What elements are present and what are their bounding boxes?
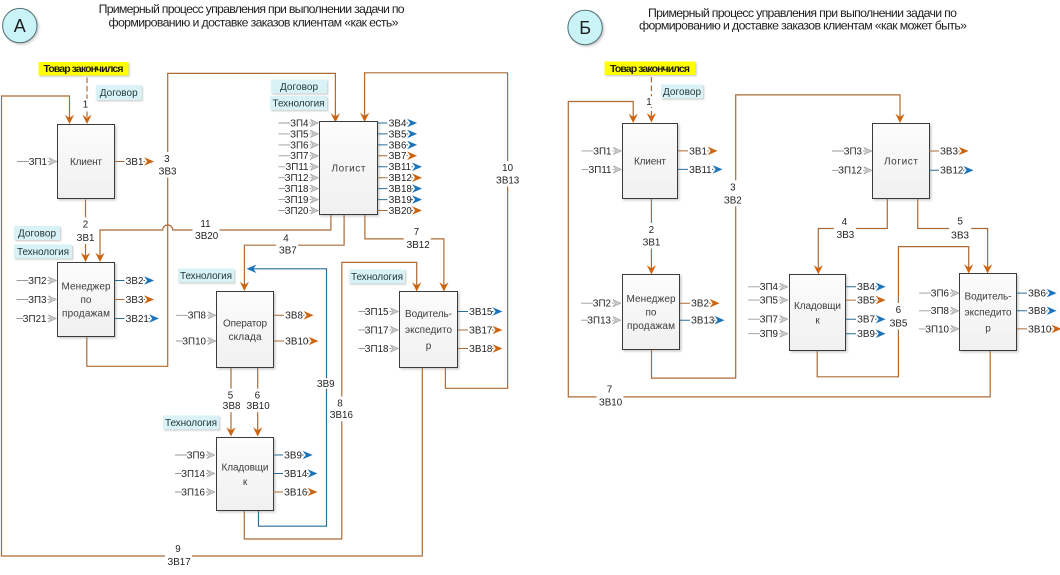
svg-text:ЗВ10: ЗВ10 bbox=[599, 398, 623, 409]
svg-text:р: р bbox=[426, 341, 432, 352]
svg-text:ЗВ18: ЗВ18 bbox=[469, 344, 493, 355]
svg-text:ЗВ2: ЗВ2 bbox=[126, 276, 144, 287]
svg-text:Примерный процесс управления п: Примерный процесс управления при выполне… bbox=[99, 2, 405, 16]
svg-text:ЗВ6: ЗВ6 bbox=[1028, 289, 1046, 300]
svg-text:ЗП1: ЗП1 bbox=[29, 157, 47, 168]
svg-text:ЗП4: ЗП4 bbox=[290, 118, 309, 129]
svg-text:ЗВ10: ЗВ10 bbox=[1028, 324, 1052, 335]
svg-text:ЗВ19: ЗВ19 bbox=[389, 195, 412, 206]
svg-text:ЗВ10: ЗВ10 bbox=[246, 401, 270, 412]
svg-text:ЗП15: ЗП15 bbox=[365, 307, 389, 318]
svg-text:ЗП10: ЗП10 bbox=[925, 324, 949, 335]
svg-text:6: 6 bbox=[896, 305, 902, 316]
svg-text:ЗП10: ЗП10 bbox=[182, 336, 206, 347]
svg-text:5: 5 bbox=[228, 390, 234, 401]
svg-text:ЗВ16: ЗВ16 bbox=[330, 410, 354, 421]
svg-text:ЗВ9: ЗВ9 bbox=[317, 379, 335, 390]
svg-text:Б: Б bbox=[579, 18, 591, 38]
svg-text:Кладовщи: Кладовщи bbox=[794, 301, 841, 312]
svg-text:8: 8 bbox=[337, 398, 343, 409]
svg-text:Логист: Логист bbox=[884, 157, 918, 168]
svg-text:ЗП8: ЗП8 bbox=[931, 306, 950, 317]
svg-text:ЗП5: ЗП5 bbox=[760, 296, 779, 307]
svg-text:Оператор: Оператор bbox=[223, 318, 267, 329]
svg-text:ЗП2: ЗП2 bbox=[593, 299, 611, 310]
svg-text:Технология: Технология bbox=[351, 272, 403, 283]
svg-text:продажам: продажам bbox=[627, 321, 675, 332]
svg-text:Клиент: Клиент bbox=[634, 157, 666, 168]
svg-text:Менеджер: Менеджер bbox=[62, 282, 111, 293]
svg-text:склада: склада bbox=[229, 332, 262, 343]
svg-text:ЗВ4: ЗВ4 bbox=[389, 118, 407, 129]
svg-text:ЗВ7: ЗВ7 bbox=[389, 151, 407, 162]
svg-text:ЗВ4: ЗВ4 bbox=[857, 282, 875, 293]
svg-text:к: к bbox=[243, 477, 248, 488]
svg-text:Товар закончился: Товар закончился bbox=[610, 63, 690, 75]
svg-text:экспедито: экспедито bbox=[965, 308, 1012, 319]
svg-text:Товар закончился: Товар закончился bbox=[44, 63, 124, 75]
svg-text:ЗВ15: ЗВ15 bbox=[469, 307, 493, 318]
svg-text:ЗП13: ЗП13 bbox=[587, 316, 611, 327]
svg-text:Технология: Технология bbox=[273, 99, 325, 110]
svg-text:ЗП11: ЗП11 bbox=[588, 165, 611, 176]
svg-text:по: по bbox=[646, 308, 657, 319]
svg-text:1: 1 bbox=[83, 99, 88, 110]
svg-text:ЗВ3: ЗВ3 bbox=[951, 230, 969, 241]
svg-text:ЗП21: ЗП21 bbox=[23, 314, 47, 325]
svg-text:ЗВ8: ЗВ8 bbox=[223, 401, 241, 412]
svg-text:продажам: продажам bbox=[62, 309, 110, 320]
svg-text:ЗВ16: ЗВ16 bbox=[284, 487, 308, 498]
svg-text:ЗВ17: ЗВ17 bbox=[167, 557, 190, 568]
svg-text:ЗП7: ЗП7 bbox=[290, 151, 308, 162]
svg-text:ЗВ10: ЗВ10 bbox=[285, 336, 309, 347]
svg-text:ЗВ2: ЗВ2 bbox=[691, 299, 709, 310]
svg-text:ЗП7: ЗП7 bbox=[760, 315, 778, 326]
svg-text:ЗВ12: ЗВ12 bbox=[940, 166, 963, 177]
svg-text:Технология: Технология bbox=[165, 418, 217, 429]
svg-text:ЗП2: ЗП2 bbox=[28, 276, 46, 287]
svg-text:2: 2 bbox=[649, 225, 654, 236]
svg-text:ЗВ1: ЗВ1 bbox=[126, 157, 144, 168]
svg-text:ЗП11: ЗП11 bbox=[285, 162, 308, 173]
svg-text:ЗВ21: ЗВ21 bbox=[126, 314, 149, 325]
svg-text:ЗП4: ЗП4 bbox=[760, 282, 779, 293]
svg-text:ЗВ2: ЗВ2 bbox=[724, 195, 742, 206]
svg-text:ЗП14: ЗП14 bbox=[181, 469, 205, 480]
svg-text:ЗВ13: ЗВ13 bbox=[691, 316, 715, 327]
svg-text:ЗВ12: ЗВ12 bbox=[389, 173, 412, 184]
svg-text:ЗВ12: ЗВ12 bbox=[406, 240, 429, 251]
svg-text:ЗП18: ЗП18 bbox=[365, 344, 389, 355]
svg-text:ЗВ13: ЗВ13 bbox=[496, 175, 520, 186]
svg-text:Клиент: Клиент bbox=[70, 157, 102, 168]
svg-text:ЗП16: ЗП16 bbox=[181, 487, 205, 498]
svg-text:ЗП1: ЗП1 bbox=[593, 146, 611, 157]
svg-text:Договор: Договор bbox=[18, 229, 56, 240]
svg-text:ЗП8: ЗП8 bbox=[188, 311, 207, 322]
svg-text:5: 5 bbox=[957, 217, 963, 228]
svg-text:ЗВ1: ЗВ1 bbox=[77, 233, 95, 244]
svg-text:4: 4 bbox=[842, 217, 848, 228]
svg-text:ЗВ5: ЗВ5 bbox=[889, 318, 907, 329]
svg-text:ЗВ7: ЗВ7 bbox=[279, 246, 297, 257]
svg-text:ЗП3: ЗП3 bbox=[844, 146, 863, 157]
svg-text:экспедито: экспедито bbox=[405, 325, 452, 336]
svg-text:ЗВ20: ЗВ20 bbox=[195, 231, 219, 242]
svg-text:ЗВ11: ЗВ11 bbox=[689, 165, 712, 176]
svg-text:ЗВ3: ЗВ3 bbox=[126, 295, 144, 306]
svg-text:формированию и доставке заказо: формированию и доставке заказов клиентам… bbox=[109, 16, 399, 30]
svg-text:А: А bbox=[14, 16, 26, 36]
svg-text:р: р bbox=[985, 324, 991, 335]
svg-text:2: 2 bbox=[83, 219, 88, 230]
svg-text:ЗВ18: ЗВ18 bbox=[389, 184, 413, 195]
svg-text:11: 11 bbox=[200, 219, 210, 230]
svg-text:4: 4 bbox=[283, 233, 289, 244]
svg-text:6: 6 bbox=[255, 390, 261, 401]
svg-text:ЗВ6: ЗВ6 bbox=[389, 140, 407, 151]
svg-text:Водитель-: Водитель- bbox=[965, 292, 1012, 303]
svg-text:ЗП18: ЗП18 bbox=[285, 184, 309, 195]
svg-text:ЗП6: ЗП6 bbox=[931, 289, 950, 300]
svg-text:ЗП12: ЗП12 bbox=[285, 173, 309, 184]
svg-text:Договор: Договор bbox=[280, 82, 318, 93]
svg-text:ЗВ9: ЗВ9 bbox=[284, 450, 302, 461]
svg-text:ЗП5: ЗП5 bbox=[290, 129, 309, 140]
svg-text:ЗВ8: ЗВ8 bbox=[1028, 306, 1046, 317]
svg-text:ЗВ3: ЗВ3 bbox=[836, 230, 854, 241]
svg-text:ЗП17: ЗП17 bbox=[365, 325, 389, 336]
svg-text:Технология: Технология bbox=[180, 271, 232, 282]
svg-text:ЗП9: ЗП9 bbox=[760, 329, 778, 340]
svg-text:ЗВ5: ЗВ5 bbox=[857, 296, 875, 307]
svg-text:ЗП20: ЗП20 bbox=[285, 206, 309, 217]
svg-text:ЗВ17: ЗВ17 bbox=[469, 325, 492, 336]
svg-text:Кладовщи: Кладовщи bbox=[222, 462, 269, 473]
svg-text:ЗВ1: ЗВ1 bbox=[689, 146, 707, 157]
svg-text:Логист: Логист bbox=[332, 164, 366, 175]
svg-text:9: 9 bbox=[175, 544, 180, 555]
svg-text:Договор: Договор bbox=[100, 88, 138, 99]
svg-text:к: к bbox=[815, 315, 820, 326]
svg-text:7: 7 bbox=[607, 385, 612, 396]
svg-text:ЗВ1: ЗВ1 bbox=[642, 237, 660, 248]
svg-text:ЗП19: ЗП19 bbox=[285, 195, 309, 206]
svg-text:Договор: Договор bbox=[663, 87, 701, 98]
svg-text:ЗП9: ЗП9 bbox=[187, 450, 205, 461]
svg-text:ЗВ5: ЗВ5 bbox=[389, 129, 407, 140]
svg-text:Технология: Технология bbox=[17, 247, 69, 258]
svg-text:ЗП3: ЗП3 bbox=[28, 295, 47, 306]
svg-text:ЗВ8: ЗВ8 bbox=[285, 311, 303, 322]
svg-text:ЗВ7: ЗВ7 bbox=[857, 315, 875, 326]
svg-text:10: 10 bbox=[502, 163, 513, 174]
svg-text:ЗП12: ЗП12 bbox=[838, 166, 862, 177]
svg-text:ЗВ20: ЗВ20 bbox=[389, 206, 413, 217]
svg-text:формированию и доставке заказо: формированию и доставке заказов клиентам… bbox=[639, 19, 967, 33]
svg-text:7: 7 bbox=[414, 227, 419, 238]
svg-text:ЗВ11: ЗВ11 bbox=[389, 162, 412, 173]
svg-text:ЗВ3: ЗВ3 bbox=[940, 146, 958, 157]
svg-text:3: 3 bbox=[164, 154, 170, 165]
svg-text:по: по bbox=[81, 295, 92, 306]
svg-text:Водитель-: Водитель- bbox=[405, 309, 452, 320]
svg-text:1: 1 bbox=[646, 97, 651, 108]
svg-text:ЗП6: ЗП6 bbox=[290, 140, 309, 151]
svg-text:Менеджер: Менеджер bbox=[627, 294, 676, 305]
svg-text:ЗВ9: ЗВ9 bbox=[857, 329, 875, 340]
svg-text:3: 3 bbox=[730, 182, 736, 193]
svg-text:ЗВ3: ЗВ3 bbox=[159, 166, 177, 177]
svg-text:ЗВ14: ЗВ14 bbox=[284, 469, 308, 480]
